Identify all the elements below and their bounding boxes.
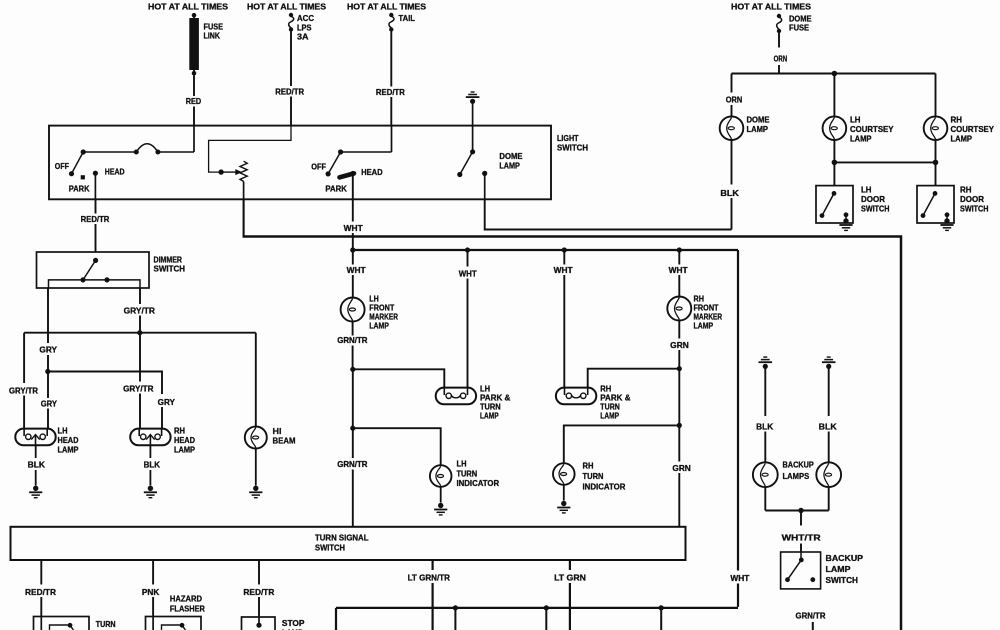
svg-text:FRONT: FRONT [369,304,394,313]
wire LT GRN [569,560,571,630]
label ACC LPS 3A [297,14,314,42]
RH park & turn lamp [556,388,596,405]
svg-text:HI: HI [273,427,282,436]
svg-text:WHT: WHT [344,224,363,233]
wire GRY/TR high-beam bus [24,332,256,334]
svg-text:BEAM: BEAM [273,437,296,446]
junction GRY tee [45,369,50,374]
LH door switch contacts [820,191,849,219]
wire rheostat down [243,181,245,199]
fuse TAIL [389,13,394,32]
svg-text:FUSE: FUSE [204,23,224,32]
svg-text:RH: RH [960,186,972,195]
ground HI BEAM [249,486,262,498]
label RH PARK & TURN LAMP [600,385,630,421]
svg-text:LH: LH [861,186,872,195]
svg-text:LAMP: LAMP [480,412,499,421]
svg-text:LAMP: LAMP [747,125,769,134]
svg-text:LAMP: LAMP [694,322,714,331]
wire branch to LH turn indicator [353,428,441,465]
junction tie/LH [832,160,838,166]
junction RH turn feed [677,423,682,428]
wire PNK to hazard flasher [152,560,154,617]
svg-text:TAIL: TAIL [399,14,416,23]
svg-text:BLK: BLK [720,189,739,198]
svg-text:HEAD: HEAD [58,436,79,445]
junction WHT bus / RH park&turn [562,247,567,252]
stop lamp switch internals [256,617,261,628]
wire HEAD contact down [94,173,96,199]
svg-text:RED: RED [186,97,201,106]
svg-text:GRN: GRN [670,341,689,350]
wiper arrow to rheostat [221,169,242,175]
svg-text:DOME: DOME [747,116,771,125]
wire branch to RH turn indicator [564,425,680,463]
svg-text:HEAD: HEAD [105,168,125,177]
junction LH park feed [350,367,355,372]
wire RED feed inside box [193,126,195,152]
svg-text:RED/TR: RED/TR [81,215,110,224]
svg-text:BACKUP: BACKUP [783,461,815,470]
wire BLK dome lamp return [731,140,733,229]
wire BLK LH backup [764,368,766,463]
ground at RH door switch [940,218,953,230]
label BACKUP LAMP SWITCH [826,554,864,585]
junction WHT bus / LH park&turn [465,247,470,252]
LH backup lamp [753,462,778,487]
svg-text:PARK: PARK [325,185,347,194]
RH door switch contacts [921,191,950,219]
LH park & turn lamp [436,388,476,405]
svg-text:GRN/TR: GRN/TR [337,336,367,345]
svg-text:RED/TR: RED/TR [25,588,56,597]
ground at LH door switch [839,218,852,230]
svg-text:COURTSEY: COURTSEY [951,125,995,134]
turn signal switch box [11,527,686,560]
wire HI BEAM ground lead [255,449,257,486]
svg-text:LH: LH [58,427,68,436]
wire GRY/TR to HI BEAM indicator [255,333,257,427]
label DOME FUSE [789,15,812,33]
label LH COURTSEY LAMP [850,116,894,144]
svg-text:LAMP: LAMP [600,412,619,421]
wire BLK RH backup [828,368,830,463]
svg-text:LH: LH [369,295,379,304]
wire RH courtesy lamp feed [935,74,937,117]
wire GRY dimmer low output [47,288,49,372]
svg-text:BLK: BLK [28,461,45,470]
label LH TURN INDICATOR [457,459,500,488]
svg-text:RH: RH [951,116,963,125]
svg-text:LAMP: LAMP [826,565,852,574]
hazard flasher internals [153,617,185,630]
dimmer switch input contact [93,258,98,263]
svg-text:ORN: ORN [726,96,743,105]
wire rear harness line [336,607,738,609]
label LH PARK & TURN LAMP [480,385,510,421]
RH courtesy lamp [924,116,948,140]
svg-text:HOT AT ALL TIMES: HOT AT ALL TIMES [731,3,812,12]
wire GRN/TR LH marker down [352,322,354,370]
svg-text:SWITCH: SWITCH [557,143,588,152]
svg-text:BACKUP: BACKUP [826,554,864,563]
inverted ground above dome switch [466,92,480,104]
svg-text:HOT AT ALL TIMES: HOT AT ALL TIMES [347,3,427,12]
headlight switch PARK contact [81,175,85,179]
svg-text:RH: RH [583,462,594,471]
svg-text:TURN: TURN [457,469,478,478]
svg-text:FRONT: FRONT [694,304,719,313]
park switch feed inside box [391,126,393,152]
backup switch input contact [799,552,804,562]
svg-text:GRN/TR: GRN/TR [337,460,367,469]
svg-text:WHT: WHT [459,269,477,278]
svg-text:ACC: ACC [297,14,314,23]
wire GRN/TR between junctions [352,369,354,428]
wire rheostat output below box [243,199,245,236]
svg-text:HAZARD: HAZARD [170,595,202,604]
wire WHT bus drop to bottom [737,250,739,607]
svg-text:GRY: GRY [39,346,57,355]
wire backup tie line [765,510,828,512]
svg-text:RED/TR: RED/TR [275,88,304,97]
dome switch arm [460,152,473,175]
dimmer switch box [37,252,150,288]
svg-text:DOOR: DOOR [960,195,984,204]
LH courtesy lamp [823,116,847,140]
svg-text:LIGHT: LIGHT [557,134,579,143]
wire WHT bus [353,249,738,251]
wire dome distribution bus [732,72,936,74]
svg-text:LAMP: LAMP [174,446,195,455]
headlight switch common line with hump [83,144,194,155]
HI BEAM indicator lamp [245,427,267,449]
headlight switch OFF contact [69,171,74,176]
wire drop b [545,608,547,630]
label RH HEAD LAMP [174,427,195,455]
wire LT GRN/TR [432,560,434,630]
wire GRY to LH headlamp inner [47,372,49,429]
svg-text:WHT: WHT [730,574,749,583]
wire LH backup down [764,487,766,510]
wire LH turn indicator ground lead [440,487,442,503]
label RH TURN INDICATOR [583,462,626,492]
wire dome return to light switch [485,199,732,229]
svg-text:COURTSEY: COURTSEY [850,125,894,134]
svg-text:BLK: BLK [819,422,837,431]
svg-text:PARK &: PARK & [600,394,630,403]
wire GRY/TR to LH headlamp [23,333,25,429]
label TURN SIGNAL SWITCH [315,534,369,553]
junction WHT bus / RH marker [677,247,682,252]
label STOP LAMP [282,619,305,630]
turn signal flasher internals [41,617,73,630]
RH head lamp [130,429,170,446]
wire RED fuse link to light switch [193,76,195,126]
park switch common contact [338,149,343,154]
park switch HEAD contact [350,171,355,176]
junction RH park feed [677,366,682,371]
inverted ground LH backup [759,357,773,369]
wire drop a [454,608,456,630]
wire ORN dome fuse down [778,33,780,74]
svg-text:RH: RH [694,295,705,304]
wire panel lamps feed line [243,237,901,630]
svg-text:PARK: PARK [69,185,90,194]
label RH COURTSEY LAMP [951,116,995,144]
wire BLK RH headlamp ground lead [149,445,151,485]
label LH DOOR SWITCH [861,186,890,214]
wire GRN/TR dashed stub [812,622,814,630]
label DIMMER SWITCH [154,256,186,274]
headlight switch common contact [81,149,86,154]
svg-text:SWITCH: SWITCH [861,205,890,214]
wire GRN RH marker down [678,321,680,369]
svg-text:GRY/TR: GRY/TR [9,387,38,396]
fuse link [189,13,199,76]
wire ORN to dome lamp [731,74,733,117]
svg-text:LAMP: LAMP [951,135,973,144]
dimmer low contact [80,277,85,282]
junction tie/RH [933,160,939,166]
label LH FRONT MARKER LAMP [369,295,398,331]
svg-text:BLK: BLK [756,422,773,431]
svg-text:INDICATOR: INDICATOR [583,483,626,492]
svg-text:LAMP: LAMP [850,135,872,144]
label BACKUP LAMPS [783,461,815,482]
RH front marker lamp [667,297,691,321]
wire WHT to LH front marker [352,250,354,298]
svg-text:TURN SIGNAL: TURN SIGNAL [315,534,369,543]
inverted ground RH backup [822,357,836,369]
svg-text:TURN: TURN [96,620,116,629]
svg-text:TURN: TURN [583,472,604,481]
svg-text:INDICATOR: INDICATOR [457,479,500,488]
svg-text:LH: LH [480,385,490,394]
label LH HEAD LAMP [58,427,79,455]
dimmer output line [49,280,141,288]
svg-text:LAMP: LAMP [369,322,389,331]
wire GRN/TR to turn signal switch [352,428,354,527]
wire ground to dome switch [472,104,474,152]
wire drop c [660,608,662,630]
junction rear harness c [659,605,664,610]
wire RH backup down [828,487,830,510]
svg-text:HEAD: HEAD [361,168,383,177]
junction GRY/TR bus [137,330,142,335]
wire RH courtesy to door switch [935,140,937,186]
junction dome bus / LH courtesy [832,71,838,77]
svg-text:SWITCH: SWITCH [826,576,859,585]
svg-text:LT GRN/TR: LT GRN/TR [408,574,450,583]
svg-text:GRY: GRY [41,400,58,409]
junction rear harness b [544,605,549,610]
svg-text:HOT AT ALL TIMES: HOT AT ALL TIMES [148,3,229,12]
svg-text:SWITCH: SWITCH [154,265,186,274]
svg-text:HEAD: HEAD [174,436,195,445]
ground RH head lamp [144,486,157,498]
LH front marker lamp [341,298,365,322]
wire RED/TR TAIL to light switch [390,32,392,126]
svg-text:DOME: DOME [789,15,812,24]
wire branch to LH park&turn lamp [353,369,445,387]
wire BLK LH headlamp ground lead [35,445,37,485]
junction WHT bus / LH marker [350,247,355,252]
wire WHT park output down [352,174,354,250]
svg-text:BLK: BLK [144,461,160,470]
wire rear harness left drop [335,608,337,630]
wire RED/TR to stop lamp switch [258,560,260,617]
wire GRY branch to RH headlamp [48,372,162,395]
svg-text:LINK: LINK [204,32,221,41]
wire GRN between junctions [678,369,680,426]
svg-text:WHT: WHT [554,266,573,275]
hazard flasher box [146,617,202,630]
svg-text:LAMPS: LAMPS [783,472,810,481]
wire LH courtesy to door switch [833,140,835,186]
backup lamp switch box [781,552,821,589]
headlight switch arm to OFF [72,152,84,174]
junction rear harness a [453,605,458,610]
ground RH turn indicator [557,501,570,513]
svg-text:RH: RH [600,385,611,394]
light switch box [49,126,551,200]
wire RED/TR light switch to dimmer [95,199,97,252]
wire RED/TR ACC to light switch [290,32,292,126]
svg-text:SWITCH: SWITCH [960,205,989,214]
junction backup tie [798,508,803,513]
RH backup lamp [816,462,841,487]
label HAZARD FLASHER [170,595,205,614]
svg-text:RH: RH [174,427,185,436]
svg-text:LH: LH [457,459,467,468]
svg-text:SWITCH: SWITCH [315,544,345,553]
panel light rheostat [240,161,247,181]
junction LH turn feed [350,426,355,431]
wire LH courtesy lamp feed [833,74,835,117]
svg-text:GRY/TR: GRY/TR [124,306,155,315]
svg-text:TURN: TURN [480,403,501,412]
label FUSE LINK [204,23,224,41]
svg-text:MARKER: MARKER [694,313,723,322]
label DOME LAMP [747,116,771,135]
panel dimmer feed path [209,126,291,173]
dimmer switch arm [83,260,96,280]
wire GRY branch lower [161,407,163,429]
park switch common line [341,151,392,153]
svg-text:FUSE: FUSE [789,24,809,33]
wire GRY/TR dimmer high output [139,288,141,333]
svg-text:TURN: TURN [600,403,620,412]
LH turn indicator lamp [430,465,452,487]
label RH FRONT MARKER LAMP [694,295,723,331]
wire branch to RH park&turn lamp [588,369,680,388]
svg-text:PNK: PNK [142,588,159,597]
svg-text:RED/TR: RED/TR [376,88,405,97]
wire WHT/TR to backup switch [800,511,802,553]
svg-text:GRN: GRN [672,464,690,473]
svg-text:OFF: OFF [55,162,69,171]
label DOME LAMP (switch) [499,152,523,171]
dome lamp [720,116,744,140]
wire RH turn indicator ground lead [563,485,565,501]
svg-text:3A: 3A [297,33,309,42]
backup switch arm [788,560,802,580]
label HI BEAM [273,427,296,446]
dome switch output contact [482,171,487,176]
ground LH turn indicator [434,503,447,515]
svg-text:RED/TR: RED/TR [243,588,274,597]
svg-text:WHT: WHT [669,266,688,275]
svg-text:GRN/TR: GRN/TR [796,612,826,621]
dimmer high contact [104,277,109,282]
wire dome switch output down [484,173,486,199]
svg-text:ORN: ORN [774,55,788,64]
svg-text:HOT AT ALL TIMES: HOT AT ALL TIMES [247,3,327,12]
svg-text:LAMP: LAMP [499,162,520,171]
label RH DOOR SWITCH [960,186,989,214]
park switch OFF contact [326,171,331,176]
svg-text:DOOR: DOOR [861,195,885,204]
svg-text:DOME: DOME [499,152,523,161]
svg-text:PARK &: PARK & [480,394,510,403]
svg-text:LT GRN: LT GRN [554,574,586,583]
fuse ACC LPS 3A [289,13,294,32]
backup switch contact a [785,577,790,582]
svg-text:LAMP: LAMP [58,446,79,455]
stop lamp switch box [242,617,276,630]
park switch arm to OFF [328,152,341,174]
headlight switch HEAD contact [93,171,98,176]
backup switch contact b [810,577,815,582]
svg-text:WHT: WHT [347,266,366,275]
svg-text:WHT/TR: WHT/TR [782,533,821,542]
wire courtesy lamp tie line [834,161,935,163]
svg-text:LH: LH [850,116,861,125]
turn signal flasher box [34,617,90,630]
fuse DOME [777,14,782,33]
dome switch pivot contact [470,149,475,154]
LH head lamp [15,429,55,446]
svg-text:OFF: OFF [311,162,326,171]
svg-text:STOP: STOP [282,619,305,628]
svg-text:LPS: LPS [297,24,312,33]
wire WHT to LH park&turn lamp [467,250,469,388]
LH door switch box [816,186,853,223]
svg-text:FLASHER: FLASHER [170,604,205,613]
junction on dimmer feed [218,169,223,174]
ground LH head lamp [29,486,42,498]
wire WHT to RH park&turn lamp [563,250,565,388]
wire GRN to turn signal switch [678,425,680,526]
RH door switch box [917,186,954,223]
RH turn indicator lamp [553,463,575,485]
wire RED/TR to turn signal flasher [40,560,42,617]
label LIGHT SWITCH [557,134,588,152]
svg-text:MARKER: MARKER [369,313,398,322]
svg-text:GRY/TR: GRY/TR [123,385,153,394]
wire GRY/TR to RH headlamp [139,333,141,429]
svg-text:GRY: GRY [158,398,176,407]
park switch wiper bar [340,173,355,177]
wire WHT to RH front marker [678,250,680,298]
dome switch open contact [457,172,462,177]
svg-text:DIMMER: DIMMER [154,256,183,265]
